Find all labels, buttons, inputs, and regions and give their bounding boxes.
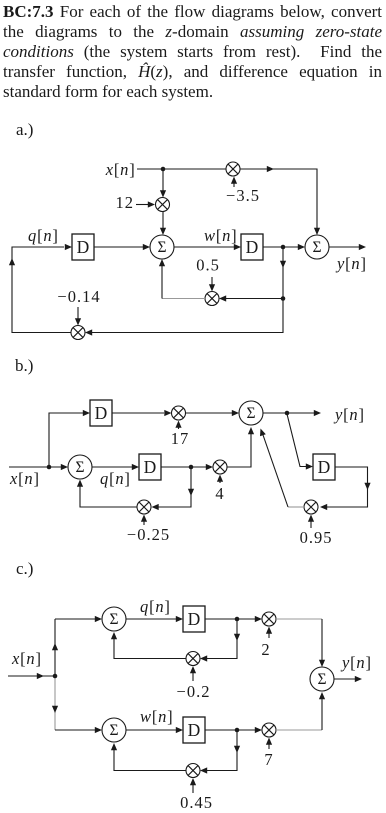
wire into summer S6 — [55, 729, 95, 731]
wire -0.25 label arrow into multiplier — [143, 519, 145, 525]
svg-text:q[n]: q[n] — [28, 226, 59, 245]
delay D6 — [183, 606, 205, 632]
node junction on x[n] line — [161, 167, 166, 172]
delay D5 — [313, 454, 335, 480]
svg-text:0.5: 0.5 — [196, 256, 220, 275]
wire -3.5 label arrow into multiplier — [233, 181, 235, 187]
wire x[n] into branch junction — [8, 675, 55, 677]
svg-text:Σ: Σ — [109, 722, 118, 739]
svg-text:−0.2: −0.2 — [177, 682, 211, 701]
wire S4 output y[n] — [263, 412, 314, 414]
svg-text:D: D — [144, 457, 157, 477]
wire branch up into delay D3 — [49, 413, 83, 467]
svg-text:−0.25: −0.25 — [127, 525, 170, 544]
svg-text:x[n]: x[n] — [9, 469, 40, 488]
wire multiplier 7 to summer S7 bottom — [276, 729, 322, 731]
wire S1 to delay D2 — [174, 246, 234, 248]
wire 12 into multiplier — [136, 204, 148, 206]
svg-text:Σ: Σ — [246, 405, 255, 422]
wire 0.5 label arrow into multiplier — [211, 277, 213, 286]
svg-text:x[n]: x[n] — [11, 649, 42, 668]
wire multiplier -0.2 into S5 bottom — [114, 636, 186, 659]
wire multiplier -0.25 into S3 bottom — [80, 484, 137, 507]
multiplier (x) gain -0.2 — [186, 652, 200, 666]
wire 0.45 label arrow into multiplier — [192, 782, 194, 793]
svg-text:D: D — [95, 403, 108, 423]
wire multiplier 0.5 into S1 bottom — [162, 298, 205, 300]
wire S3 to delay D4 — [92, 466, 132, 468]
wire multiplier 4 up into summer S4 — [227, 432, 251, 467]
delay D3 — [90, 400, 112, 426]
svg-text:4: 4 — [215, 484, 224, 503]
delay D1 — [72, 234, 94, 260]
wire D2 to summer S2 — [263, 246, 298, 248]
node branch junction — [53, 674, 58, 679]
wire multiplier 17 into summer S4 — [186, 412, 233, 414]
wire diagonal from output junction into delay D5 — [287, 414, 306, 467]
wire -0.14 label arrow into multiplier — [77, 307, 79, 320]
wire feedback down to multiplier -0.2 — [207, 619, 237, 659]
delay D2 — [241, 234, 263, 260]
wire multiplier 0.45 into S6 bottom — [114, 747, 186, 771]
svg-text:D: D — [318, 457, 331, 477]
summer S3 — [68, 455, 92, 479]
wire 17 label arrow into multiplier — [178, 425, 180, 429]
problem statement text — [3, 2, 382, 102]
wire lower feedback to multiplier 0.45 — [207, 730, 237, 771]
svg-text:7: 7 — [264, 750, 273, 769]
summer S6 — [102, 718, 126, 742]
wire D6 to multiplier 2 — [205, 618, 255, 620]
wire junction down to 0.5 row — [282, 247, 284, 299]
summer S2 — [305, 235, 329, 259]
svg-text:Σ: Σ — [317, 671, 326, 688]
wire junction down into multiplier 12 — [162, 169, 164, 191]
summer S1 — [150, 235, 174, 259]
wire 7 label arrow into multiplier — [268, 742, 270, 749]
svg-text:D: D — [188, 609, 201, 629]
svg-text:w[n]: w[n] — [204, 226, 237, 245]
svg-text:D: D — [77, 237, 90, 257]
svg-text:D: D — [188, 720, 201, 740]
svg-text:2: 2 — [261, 640, 270, 659]
wire S2 output y[n] — [329, 246, 359, 248]
node junction after D6 — [235, 617, 240, 622]
wire D1 to summer S1 — [94, 246, 143, 248]
svg-text:q[n]: q[n] — [100, 469, 131, 488]
wire x[n] into summer S3 — [9, 466, 61, 468]
svg-text:w[n]: w[n] — [140, 707, 173, 726]
wire lower feedback to -0.14 multiplier — [92, 299, 283, 333]
wire D5 down to multiplier 0.95 — [327, 467, 368, 507]
multiplier (x) gain 0.95 — [304, 500, 318, 514]
node junction at 0.5 row — [281, 296, 286, 301]
multiplier (x) gain 0.45 — [186, 764, 200, 778]
wire left feedback up into delay D1 — [12, 247, 71, 333]
summer S4 — [239, 401, 263, 425]
svg-text:0.45: 0.45 — [180, 793, 213, 812]
delay D7 — [183, 717, 205, 743]
wire junction into multiplier 0.5 — [226, 298, 283, 300]
svg-text:−3.5: −3.5 — [226, 186, 260, 205]
multiplier (x) gain -0.14 — [71, 326, 85, 340]
wire 2 label arrow into multiplier — [268, 631, 270, 638]
multiplier (x) gain -3.5 — [226, 162, 240, 176]
delay D4 — [139, 454, 161, 480]
svg-text:a.): a.) — [16, 120, 33, 139]
wire 4 label arrow into multiplier — [219, 479, 221, 483]
wire multiplier 2 to summer S7 top — [276, 618, 322, 620]
svg-text:D: D — [246, 237, 259, 257]
wire x[n] top line to right summer — [137, 169, 317, 234]
multiplier (x) gain 12 — [156, 198, 170, 212]
wire diagonal multiplier 0.95 into S4 — [288, 506, 304, 508]
multiplier (x) gain 0.5 — [205, 292, 219, 306]
svg-text:Σ: Σ — [312, 239, 321, 256]
wire feedback junction down to multiplier -0.25 — [158, 467, 191, 507]
svg-text:Σ: Σ — [75, 459, 84, 476]
svg-text:Σ: Σ — [109, 611, 118, 628]
wire S7 output y[n] — [334, 678, 355, 680]
svg-text:y[n]: y[n] — [340, 653, 372, 672]
multiplier (x) gain -0.25 — [137, 500, 151, 514]
node junction after D7 — [235, 728, 240, 733]
wire into summer S5 — [55, 618, 95, 620]
svg-text:12: 12 — [116, 193, 135, 212]
svg-text:0.95: 0.95 — [300, 528, 333, 547]
multiplier (x) gain 2 — [262, 612, 276, 626]
wire S6 to delay D7 — [126, 729, 176, 731]
wire D7 to multiplier 7 — [205, 729, 255, 731]
wire -0.2 label arrow into multiplier — [192, 670, 194, 681]
wire multiplier 12 down into summer S1 — [162, 212, 164, 229]
svg-text:x[n]: x[n] — [105, 160, 136, 179]
wire D3 to multiplier 17 — [112, 412, 164, 414]
svg-text:b.): b.) — [15, 356, 33, 375]
svg-text:q[n]: q[n] — [140, 597, 171, 616]
svg-text:Σ: Σ — [157, 239, 166, 256]
wire S5 to delay D6 — [126, 618, 176, 620]
node junction on output — [285, 411, 290, 416]
multiplier (x) gain 17 — [172, 406, 186, 420]
svg-text:c.): c.) — [16, 559, 33, 578]
svg-text:y[n]: y[n] — [333, 405, 365, 424]
node junction after D2 — [281, 245, 286, 250]
multiplier (x) gain 4 — [213, 460, 227, 474]
summer S5 — [102, 607, 126, 631]
svg-text:y[n]: y[n] — [335, 254, 367, 273]
wire D4 to multiplier 4 — [161, 466, 206, 468]
svg-text:−0.14: −0.14 — [57, 287, 100, 306]
node junction on x[n] line — [47, 465, 52, 470]
svg-text:17: 17 — [171, 429, 190, 448]
summer S7 — [310, 667, 334, 691]
wire branch vertical — [54, 619, 56, 676]
multiplier (x) gain 7 — [262, 723, 276, 737]
node junction after D4 — [189, 465, 194, 470]
wire 0.95 label arrow into multiplier — [310, 519, 312, 528]
